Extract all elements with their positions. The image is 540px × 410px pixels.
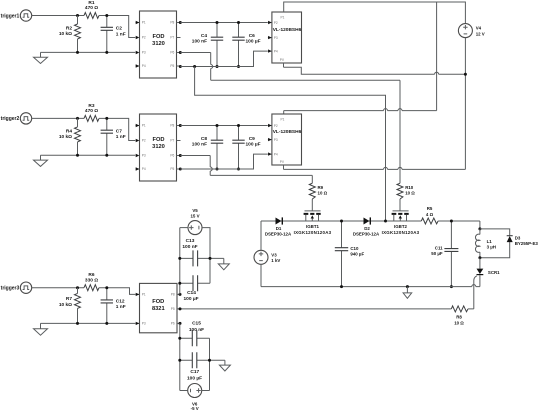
pin arrow FOD3 P1 — [136, 293, 140, 296]
svg-text:V4: V4 — [476, 26, 482, 31]
capacitor C14 100 uF — [180, 275, 210, 302]
svg-text:VL-120BSH6: VL-120BSH6 — [273, 27, 302, 33]
wire hop VL2 P1 line over IGBT2 gate riser — [398, 109, 402, 111]
svg-text:R2: R2 — [66, 26, 72, 32]
svg-text:P4: P4 — [274, 50, 278, 54]
svg-text:R1: R1 — [88, 0, 94, 6]
capacitor C11 50 uF — [431, 221, 458, 287]
node FOD3 P8 — [179, 293, 182, 296]
svg-text:FOD: FOD — [152, 34, 164, 40]
svg-text:DSEP30-12A: DSEP30-12A — [353, 232, 380, 237]
svg-text:-5 V: -5 V — [191, 406, 199, 410]
svg-text:P5: P5 — [170, 64, 174, 68]
resistor R10 10 Ohm — [397, 183, 415, 199]
resistor R9 10 Ohm — [309, 183, 327, 199]
node C10 bottom on return rail — [340, 285, 343, 288]
node junction R2 bottom — [76, 51, 79, 54]
op-coupler U5 FOD 8321 — [136, 283, 181, 332]
svg-text:P3: P3 — [274, 36, 278, 40]
svg-text:P8: P8 — [171, 293, 175, 297]
node C4 bottom — [216, 65, 219, 68]
svg-text:V3: V3 — [271, 252, 277, 257]
svg-text:trigger1: trigger1 — [1, 13, 20, 19]
svg-text:P1: P1 — [142, 293, 146, 297]
wire FOD3 P5 to R8 (SCR gate line) — [180, 308, 474, 310]
svg-text:P6: P6 — [170, 51, 174, 55]
wire FOD1 P5 branch to IGBT2 drain node — [195, 67, 386, 222]
wire hop return rail over SCR1 gate — [472, 285, 476, 287]
node C8 bottom — [216, 168, 219, 171]
svg-text:10 kΩ: 10 kΩ — [59, 302, 72, 308]
pin arrow FOD1 P3 — [136, 51, 140, 54]
pin arrow FOD1 P4 — [136, 64, 140, 67]
node C10 top on rail — [340, 220, 343, 223]
svg-text:P2: P2 — [274, 124, 278, 128]
wire rail corner down to L1 — [479, 221, 481, 229]
wire V3 plus to power rail — [260, 221, 262, 250]
wire power return rail — [261, 286, 480, 288]
wire hop P6 line over rail row2 — [210, 167, 212, 171]
svg-text:1 nF: 1 nF — [116, 31, 126, 37]
svg-text:100 µF: 100 µF — [245, 39, 260, 45]
wire R9 to IGBT1 gate — [311, 199, 313, 211]
svg-text:BY255P-E3: BY255P-E3 — [515, 241, 539, 246]
svg-text:10 Ω: 10 Ω — [405, 191, 415, 196]
svg-text:1 nF: 1 nF — [116, 304, 126, 310]
svg-text:C9: C9 — [249, 136, 255, 142]
pulse source trigger3 — [1, 282, 32, 293]
wire FOD3 P6 down to V6 rail — [179, 323, 181, 390]
node FOD1 P5 — [179, 65, 182, 68]
node FOD2 P6 — [179, 154, 182, 157]
node junction trigger3/R7 — [76, 286, 79, 289]
capacitor C13 100 nF — [180, 238, 224, 266]
svg-text:P1: P1 — [142, 124, 146, 128]
svg-text:SCR1: SCR1 — [488, 270, 500, 275]
node junction C12 top — [105, 286, 108, 289]
capacitor C10 940 uF — [335, 221, 365, 287]
svg-text:10 kΩ: 10 kΩ — [59, 134, 72, 140]
svg-text:P1: P1 — [281, 15, 285, 19]
op-coupler U1 FOD 3120 — [136, 11, 181, 78]
node FOD3 P6 — [179, 322, 182, 325]
node C6 bottom — [237, 65, 240, 68]
pin arrow VL1 P3 — [268, 36, 272, 39]
svg-text:100 µF: 100 µF — [183, 296, 198, 302]
svg-text:trigger3: trigger3 — [1, 286, 20, 292]
pin arrow FOD2 P2 — [136, 139, 140, 142]
dc source V6 -5 V — [188, 384, 202, 410]
node FOD3 P5 — [179, 307, 182, 310]
svg-text:C8: C8 — [201, 136, 207, 142]
svg-text:IXGK120N120A3: IXGK120N120A3 — [382, 230, 420, 235]
svg-text:100 µF: 100 µF — [187, 375, 202, 381]
svg-text:D3: D3 — [515, 235, 521, 240]
svg-text:C13: C13 — [186, 238, 195, 244]
svg-text:FOD: FOD — [152, 299, 164, 305]
svg-text:8321: 8321 — [152, 306, 165, 312]
svg-text:330 Ω: 330 Ω — [85, 277, 98, 283]
capacitor C9 100 uF — [232, 126, 260, 170]
svg-text:IGBT1: IGBT1 — [306, 224, 319, 229]
svg-text:P2: P2 — [142, 36, 146, 40]
svg-text:R7: R7 — [66, 296, 72, 302]
capacitor C6 100 uF — [232, 23, 260, 67]
ground C17 — [219, 360, 230, 371]
wire hop P6 line over rail row1 — [211, 65, 213, 69]
wire R3 to FOD2 pin2 — [99, 118, 135, 140]
svg-text:1 kV: 1 kV — [271, 258, 280, 263]
svg-text:P6: P6 — [171, 322, 175, 326]
wire V4 minus down to VL2 PV rail — [464, 38, 466, 170]
node junction L1 top / D3 branch — [478, 227, 481, 230]
node C9 bottom — [237, 168, 240, 171]
pin arrow FOD1 P1 — [136, 21, 140, 24]
node C13 left — [178, 257, 181, 260]
dc source V5 15 V — [188, 208, 202, 235]
svg-text:R10: R10 — [405, 185, 414, 190]
svg-text:3120: 3120 — [152, 41, 165, 47]
pulse source trigger2 — [1, 113, 32, 124]
capacitor C12 1 nF — [101, 288, 126, 324]
svg-text:P1: P1 — [281, 117, 285, 121]
svg-text:DSEP30-12A: DSEP30-12A — [265, 232, 292, 237]
node junction trigger1/R2 — [76, 14, 79, 17]
wire FOD1 P6 to R10 riser (gate IGBT2) — [180, 53, 400, 184]
svg-text:C11: C11 — [435, 246, 443, 251]
resistor R7 10 kOhm — [59, 288, 81, 324]
pin arrow FOD2 P1 — [136, 124, 140, 127]
svg-text:R4: R4 — [66, 128, 72, 134]
svg-text:P5: P5 — [170, 167, 174, 171]
node junction R7 bottom — [76, 322, 79, 325]
wire trigger1 to R1 — [32, 15, 84, 17]
node junction C12 bottom — [105, 322, 108, 325]
dc-dc module U4 VL-120BSH6 (VL2) — [268, 114, 302, 169]
node junction C7 top — [105, 117, 108, 120]
wire VL2 PV to V4 minus rail — [284, 168, 466, 170]
node C11 top on rail — [450, 220, 453, 223]
wire ground rail row2 — [41, 154, 136, 156]
node C9 top — [237, 124, 240, 127]
svg-text:P2: P2 — [142, 139, 146, 143]
resistor R6 330 Ohm — [84, 272, 99, 291]
wire R1 to FOD1 pin2 — [99, 16, 135, 38]
resistor R3 470 Ohm — [84, 103, 99, 122]
resistor R1 470 Ohm — [84, 0, 99, 19]
pin arrow FOD3 P3 — [136, 322, 140, 325]
diode D2 DSEP30-12A — [353, 217, 380, 236]
svg-text:P2: P2 — [274, 21, 278, 25]
pin arrow VL2 P2 — [268, 124, 272, 127]
node FOD2 P5 — [179, 168, 182, 171]
svg-text:100 nF: 100 nF — [189, 327, 204, 333]
node junction rail/branch row1 — [193, 65, 196, 68]
svg-text:C12: C12 — [116, 298, 125, 304]
wire V6 left to rail — [180, 390, 188, 392]
node C15 left — [178, 337, 181, 340]
svg-text:V5: V5 — [192, 208, 198, 213]
transistor IGBT2 IXGK120N120A3 — [382, 211, 420, 235]
ground row2 — [34, 155, 48, 166]
wire power rail — [261, 220, 480, 222]
wire hop VL1 PV line over V4+ riser — [435, 72, 439, 74]
svg-text:FOD: FOD — [152, 137, 164, 143]
svg-text:P7: P7 — [170, 36, 174, 40]
capacitor C7 1 nF — [101, 118, 126, 155]
svg-text:15 V: 15 V — [190, 214, 199, 219]
resistor R4 10 kOhm — [59, 118, 81, 155]
svg-text:3120: 3120 — [152, 144, 165, 150]
pin arrow FOD1 P2 — [136, 36, 140, 39]
wire hop VL2 P1 line over drain branch riser — [384, 109, 388, 111]
svg-text:P4: P4 — [142, 167, 146, 171]
wire VL1 PV to V4 minus — [284, 67, 466, 74]
svg-text:100 µF: 100 µF — [245, 142, 260, 148]
node junction R4 bottom — [76, 154, 79, 157]
svg-text:P8: P8 — [170, 21, 174, 25]
svg-text:C14: C14 — [187, 290, 196, 296]
node ground tap on return rail — [406, 285, 409, 288]
svg-text:470 Ω: 470 Ω — [85, 108, 98, 114]
inductor L1 3 uH — [475, 229, 496, 258]
svg-text:100 nF: 100 nF — [192, 142, 207, 148]
svg-text:D2: D2 — [364, 226, 370, 231]
wire V3 minus to return rail — [260, 264, 262, 286]
svg-text:P3: P3 — [274, 138, 278, 142]
wire trigger3 to R6 — [32, 287, 84, 289]
svg-text:R8: R8 — [456, 315, 462, 320]
wire top rail V4+ — [284, 2, 466, 24]
svg-text:VL-120BSH6: VL-120BSH6 — [273, 129, 302, 135]
wire FOD2 P8 rail to VL2 P2 — [180, 125, 267, 127]
node C4 top — [216, 21, 219, 24]
svg-text:R9: R9 — [318, 185, 324, 190]
svg-text:P6: P6 — [170, 154, 174, 158]
svg-text:10 Ω: 10 Ω — [454, 320, 464, 325]
wire ground rail row1 — [41, 51, 136, 53]
svg-text:100 nF: 100 nF — [182, 244, 197, 250]
svg-text:L1: L1 — [487, 239, 493, 244]
node C14 left — [178, 282, 181, 285]
svg-text:IXGK120N120A3: IXGK120N120A3 — [294, 230, 332, 235]
dc source V4 12 V — [458, 24, 484, 38]
pin arrow VL2 P3 — [268, 138, 272, 141]
svg-text:R3: R3 — [88, 103, 94, 109]
wire ground rail row3 — [41, 322, 136, 324]
svg-text:470 Ω: 470 Ω — [85, 5, 98, 11]
svg-text:12 V: 12 V — [476, 31, 485, 36]
pin arrow VL1 P2 — [268, 21, 272, 24]
node junction drain branch on rail — [384, 220, 387, 223]
pulse source trigger1 — [1, 10, 32, 21]
diode D3 BY255P-E3 — [480, 229, 539, 258]
op-coupler U2 FOD 3120 — [136, 114, 181, 181]
svg-text:P8: P8 — [170, 124, 174, 128]
capacitor C4 100 nF — [192, 23, 223, 67]
dc source V3 1 kV — [254, 250, 280, 264]
svg-text:trigger2: trigger2 — [1, 116, 20, 122]
svg-text:1 nF: 1 nF — [116, 134, 126, 140]
node C6 top — [237, 21, 240, 24]
node C17 left — [178, 359, 181, 362]
diode D1 DSEP30-12A — [265, 217, 292, 236]
wire R6 to FOD3 pin1 — [99, 288, 135, 295]
thyristor SCR1 — [474, 258, 500, 309]
wire FOD2 P6 to R9 riser (gate IGBT1) — [180, 156, 312, 184]
svg-text:940 µF: 940 µF — [350, 251, 364, 256]
wire FOD3 P8 up to V5 rail — [179, 228, 181, 295]
svg-text:C17: C17 — [190, 369, 199, 375]
wire R10 to IGBT2 gate — [399, 199, 401, 211]
wire FOD1 P5 rail to VL1 P4 — [180, 51, 267, 66]
node C17 right — [208, 359, 211, 362]
resistor R2 10 kOhm — [59, 16, 81, 53]
svg-text:C7: C7 — [116, 129, 122, 135]
node junction C2 top — [105, 14, 108, 17]
ground power stage — [403, 287, 412, 299]
node C13 right — [209, 257, 212, 260]
svg-text:4 Ω: 4 Ω — [426, 212, 434, 217]
node FOD1 P8 — [179, 21, 182, 24]
node junction trigger2/R4 — [76, 117, 79, 120]
svg-text:100 nF: 100 nF — [192, 39, 207, 45]
pin arrow VL1 P4 — [268, 49, 272, 52]
svg-text:D1: D1 — [276, 226, 282, 231]
ground C13 — [218, 258, 229, 269]
resistor R5 4 Ohm — [421, 206, 438, 224]
svg-text:3 µH: 3 µH — [487, 245, 496, 250]
node C11 bottom on return rail — [450, 285, 453, 288]
wire hop VL2 PV line over IGBT2 gate riser — [398, 167, 402, 169]
capacitor C15 100 nF — [180, 320, 210, 390]
node junction C7 bottom — [105, 154, 108, 157]
transistor IGBT1 IXGK120N120A3 — [294, 211, 332, 235]
svg-text:P3: P3 — [142, 322, 146, 326]
wire FOD1 P8 rail to VL1 P2 — [180, 22, 267, 24]
resistor R8 10 Ohm — [451, 306, 468, 325]
ground row3 — [34, 323, 48, 335]
capacitor C8 100 nF — [192, 126, 223, 170]
svg-text:10 Ω: 10 Ω — [318, 191, 328, 196]
wire V4+ riser to VL2 P1 — [284, 2, 437, 114]
svg-text:P1: P1 — [142, 21, 146, 25]
node C8 top — [216, 124, 219, 127]
node junction C2 bottom — [105, 51, 108, 54]
node FOD1 P6 — [179, 51, 182, 54]
svg-text:P4: P4 — [142, 64, 146, 68]
wire hop VL2 PV line over drain branch riser — [384, 167, 388, 169]
svg-text:IGBT2: IGBT2 — [394, 224, 407, 229]
svg-text:C6: C6 — [249, 33, 255, 39]
svg-text:P5: P5 — [171, 307, 175, 311]
wire FOD2 P5 rail to VL2 P4 — [180, 154, 267, 169]
wire trigger2 to R3 — [32, 117, 84, 119]
node FOD2 P8 — [179, 124, 182, 127]
pin arrow FOD2 P3 — [136, 154, 140, 157]
node junction L1 bottom / D3 return — [478, 256, 481, 259]
svg-text:C10: C10 — [350, 246, 359, 251]
svg-text:P3: P3 — [142, 51, 146, 55]
svg-text:P7: P7 — [170, 139, 174, 143]
pin arrow VL2 P4 — [268, 152, 272, 155]
svg-text:P4: P4 — [274, 153, 278, 157]
svg-text:C15: C15 — [192, 320, 201, 326]
capacitor C17 100 uF — [180, 352, 225, 381]
svg-text:R6: R6 — [88, 272, 94, 278]
wire V5 right to rail — [202, 228, 210, 284]
svg-text:P3: P3 — [142, 154, 146, 158]
ground row1 — [34, 52, 48, 63]
capacitor C2 1 nF — [101, 16, 126, 53]
svg-text:10 kΩ: 10 kΩ — [59, 31, 72, 37]
svg-text:50 µF: 50 µF — [431, 251, 443, 256]
wire V5 left to rail — [180, 227, 188, 229]
svg-text:C4: C4 — [201, 33, 207, 39]
dc-dc module U3 VL-120BSH6 (VL1) — [268, 8, 302, 67]
pin arrow FOD2 P4 — [136, 167, 140, 170]
svg-text:C2: C2 — [116, 26, 122, 32]
node junction VL1 PV / V4 minus — [464, 73, 467, 76]
wire V6 right to rail — [202, 390, 210, 392]
svg-text:R5: R5 — [427, 206, 433, 211]
